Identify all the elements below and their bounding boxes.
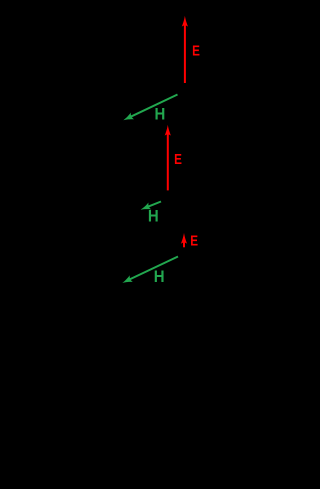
H-field arrow H2 shaft	[148, 202, 161, 207]
svg-text:E: E	[190, 232, 198, 249]
svg-text:E: E	[192, 43, 200, 60]
H-field arrow H1 shaft	[131, 95, 178, 117]
E-field arrow E3 shaft	[183, 241, 185, 247]
svg-text:H: H	[155, 105, 166, 124]
svg-text:H: H	[148, 207, 159, 226]
E-field arrow E3 head	[181, 233, 187, 244]
E-field arrow E2 shaft	[167, 133, 169, 190]
H-field arrow H2 head	[139, 203, 151, 214]
svg-text:H: H	[154, 267, 165, 286]
H-field arrow H1 head	[122, 113, 134, 124]
E-field arrow E2 head	[165, 125, 171, 136]
H-field arrow H3 shaft	[129, 257, 178, 280]
E-field arrow E1 shaft	[184, 24, 186, 83]
H-field arrow H3 head	[121, 275, 133, 286]
E-field arrow E1 head	[182, 16, 188, 27]
svg-text:E: E	[174, 151, 182, 168]
